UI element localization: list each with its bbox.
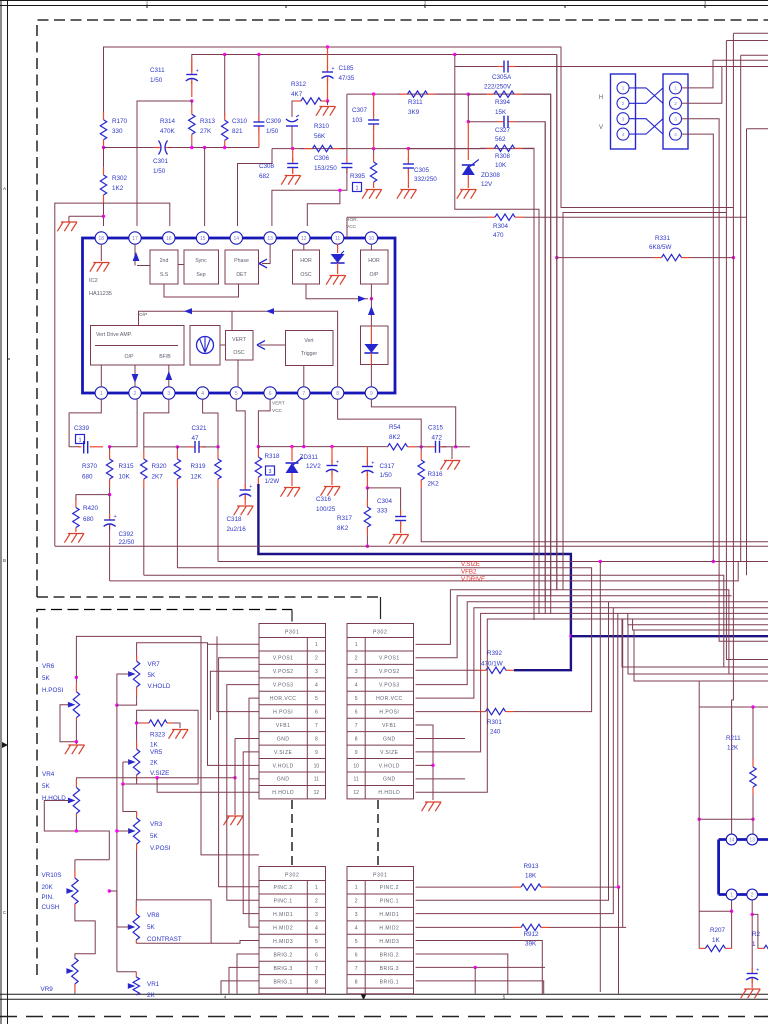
wire long line VFB2 bbox=[144, 575, 724, 667]
svg-text:R316: R316 bbox=[428, 471, 444, 478]
svg-text:P302: P302 bbox=[285, 873, 300, 879]
wire bundle L6 R304 bbox=[747, 128, 768, 130]
wire fan corner 667 exit bbox=[622, 619, 768, 667]
wire VR4 wiper loop bbox=[44, 801, 109, 860]
wire VR8 loop rect bbox=[136, 900, 211, 943]
svg-text:VR10S: VR10S bbox=[42, 872, 62, 879]
node pin2 cap bbox=[751, 913, 754, 916]
IC2-B pin 1 bbox=[726, 889, 737, 900]
svg-text:VR9: VR9 bbox=[41, 986, 54, 993]
wire R912 row bbox=[416, 926, 506, 928]
svg-text:1K2: 1K2 bbox=[112, 185, 124, 192]
svg-text:6: 6 bbox=[269, 391, 272, 397]
node row-C307 bbox=[372, 92, 375, 95]
block Sync Sep bbox=[184, 250, 219, 284]
svg-text:7: 7 bbox=[302, 391, 305, 397]
svg-text:5: 5 bbox=[355, 696, 358, 702]
block vert output circle bbox=[190, 326, 220, 366]
wire H.POSI branch to table row6 bbox=[217, 636, 259, 711]
wire wiper row right bbox=[109, 890, 117, 892]
node VR3 wiper bbox=[115, 829, 118, 832]
svg-text:2: 2 bbox=[315, 899, 318, 905]
wire IC2-B pin1 down bbox=[731, 901, 733, 949]
node VR4 row mid bbox=[155, 776, 158, 779]
resistor R913 bbox=[505, 884, 557, 890]
svg-text:BRIG.2: BRIG.2 bbox=[273, 952, 292, 958]
resistor R912 bbox=[505, 924, 557, 930]
wire pin8 to R316 bbox=[338, 399, 422, 447]
wire pin14 to jog bbox=[238, 149, 273, 226]
svg-text:11: 11 bbox=[353, 777, 358, 783]
wire node to C304 bbox=[367, 488, 400, 513]
wire T1 row5 left bbox=[249, 698, 259, 927]
node R913 bbox=[617, 885, 620, 888]
marker R395 box bbox=[353, 183, 362, 192]
svg-text:27K: 27K bbox=[200, 128, 212, 135]
ground VR6 bbox=[75, 742, 77, 744]
node C327 row left bbox=[467, 120, 470, 123]
wire fan corner 674 exit bbox=[628, 625, 768, 674]
svg-text:5: 5 bbox=[235, 391, 238, 397]
svg-text:12K: 12K bbox=[191, 474, 203, 481]
svg-text:V.SIZE: V.SIZE bbox=[150, 770, 169, 777]
wire connector crossover 1-2 bbox=[629, 88, 663, 103]
svg-text:2: 2 bbox=[355, 899, 358, 905]
svg-text:Sep: Sep bbox=[196, 272, 205, 278]
svg-text:V.POS2: V.POS2 bbox=[379, 669, 400, 675]
svg-text:PINC.2: PINC.2 bbox=[274, 885, 293, 891]
wire H.HOLD row to table bbox=[157, 778, 259, 793]
svg-text:680: 680 bbox=[82, 474, 93, 481]
svg-text:R2: R2 bbox=[752, 931, 761, 938]
wire 2nd S.S bottom to Phase DET bottom bbox=[164, 284, 239, 297]
wire connector crossover 3-4 bbox=[629, 119, 663, 134]
svg-text:Sync: Sync bbox=[195, 258, 207, 264]
svg-text:C315: C315 bbox=[428, 425, 444, 432]
connector table P301 bottom bbox=[347, 867, 414, 994]
svg-text:HOR.: HOR. bbox=[346, 217, 358, 223]
wire x618 down bbox=[618, 887, 620, 994]
wire pin4 jog bbox=[203, 399, 218, 447]
wire T2 GND rows right bbox=[416, 737, 466, 739]
op-amp IC2 HA11235 outline bbox=[83, 238, 396, 393]
svg-text:470/1W: 470/1W bbox=[481, 661, 503, 668]
svg-text:2: 2 bbox=[751, 892, 754, 898]
svg-text:472: 472 bbox=[432, 435, 443, 442]
IC2 top pins 18-10 bbox=[95, 232, 377, 244]
svg-text:H.MID3: H.MID3 bbox=[273, 939, 293, 945]
svg-text:5K: 5K bbox=[147, 924, 156, 931]
connector table P302 bottom bbox=[259, 867, 326, 994]
node W2-R313 bbox=[223, 53, 226, 56]
dashed connector link left pair vertical bbox=[291, 800, 293, 866]
node pin4-R319 bbox=[216, 445, 219, 448]
svg-text:8: 8 bbox=[315, 736, 318, 742]
resistor R392 bbox=[478, 667, 514, 673]
resistor R170 bbox=[100, 112, 106, 148]
resistor R311 bbox=[398, 91, 437, 97]
svg-text:C392: C392 bbox=[119, 531, 135, 538]
svg-text:CONTRAST: CONTRAST bbox=[147, 936, 182, 943]
node bus-R314 bbox=[190, 146, 193, 149]
svg-text:B: B bbox=[3, 558, 6, 563]
svg-text:ZD311: ZD311 bbox=[300, 454, 319, 461]
svg-text:680: 680 bbox=[83, 516, 94, 523]
dashed section border bottom-left bbox=[37, 610, 292, 976]
svg-text:C311: C311 bbox=[150, 67, 165, 74]
svg-text:13: 13 bbox=[749, 837, 755, 843]
svg-text:47/35: 47/35 bbox=[339, 75, 355, 82]
svg-text:1K: 1K bbox=[712, 937, 721, 944]
wire C305 column bbox=[407, 149, 409, 160]
pot VR6 H.POSI bbox=[73, 677, 79, 720]
svg-text:1: 1 bbox=[315, 885, 318, 891]
svg-text:5: 5 bbox=[355, 939, 358, 945]
svg-text:R912: R912 bbox=[524, 931, 540, 938]
svg-text:H.MID2: H.MID2 bbox=[273, 926, 293, 932]
node VR6 top bbox=[75, 676, 78, 679]
block output diode box bbox=[361, 326, 389, 365]
svg-text:R317: R317 bbox=[337, 515, 353, 522]
wire second top-right link L-shape bbox=[563, 213, 726, 590]
svg-text:R308: R308 bbox=[495, 153, 511, 160]
svg-text:562: 562 bbox=[495, 136, 506, 143]
wire pin17 to 2nd S.S bbox=[137, 265, 150, 267]
svg-text:+: + bbox=[249, 484, 252, 490]
node VR4 bottom bbox=[75, 829, 78, 832]
node pin18 ground wire bbox=[102, 215, 105, 218]
svg-text:V.POS3: V.POS3 bbox=[379, 683, 400, 689]
svg-text:3: 3 bbox=[269, 469, 272, 475]
wire R207 column from R211 row bbox=[698, 707, 700, 948]
wire node to C315 bbox=[421, 446, 430, 448]
wire node to R420 bbox=[76, 495, 110, 500]
svg-text:10K: 10K bbox=[495, 162, 507, 169]
node VR6 bottom bbox=[75, 740, 78, 743]
wire R211 top row bbox=[699, 706, 768, 708]
wire VR3 bottom to VR8 bbox=[136, 850, 138, 900]
capacitor C339 bbox=[78, 441, 103, 454]
wire fan corner 681 exit bbox=[634, 630, 768, 681]
node pin6-R318 bbox=[257, 445, 260, 448]
svg-text:10: 10 bbox=[353, 763, 359, 769]
svg-text:8K2: 8K2 bbox=[389, 434, 401, 441]
wire GND column x235 bbox=[235, 738, 259, 740]
wire stair r12 drop to R912 row bbox=[622, 619, 624, 927]
block HOR O/P bbox=[361, 250, 389, 284]
svg-text:R913: R913 bbox=[524, 863, 540, 870]
svg-text:R420: R420 bbox=[83, 505, 99, 512]
wire VR7 bottom join bbox=[117, 699, 137, 705]
wire C307 column bbox=[373, 94, 375, 116]
capacitor bottom right bbox=[746, 968, 759, 984]
svg-text:C309: C309 bbox=[266, 118, 282, 125]
wire R211 to IC pin13 bbox=[752, 815, 754, 834]
wire R913 row bbox=[416, 886, 506, 888]
dashed section divider to P302 bbox=[37, 596, 381, 598]
node R317 bus bbox=[366, 545, 369, 548]
wire long vertical x116.9 bbox=[116, 705, 118, 927]
svg-text:2u2/16: 2u2/16 bbox=[227, 526, 247, 533]
node R211 column top bbox=[751, 705, 754, 708]
svg-text:R211: R211 bbox=[726, 735, 741, 742]
svg-text:Vert Drive AMP.: Vert Drive AMP. bbox=[96, 332, 132, 338]
svg-text:Phase: Phase bbox=[234, 258, 249, 264]
svg-text:VR6: VR6 bbox=[42, 663, 55, 670]
svg-text:V.DRIVE: V.DRIVE bbox=[461, 576, 485, 583]
resistor R207 bbox=[699, 945, 731, 951]
node ZD311 bbox=[290, 445, 293, 448]
svg-text:4: 4 bbox=[201, 391, 204, 397]
connector left H/V bbox=[611, 74, 636, 149]
pot VR3 V.POSI bbox=[133, 812, 139, 851]
wire R211 top feed bbox=[698, 681, 700, 707]
svg-text:3K9: 3K9 bbox=[408, 109, 420, 116]
ground ZD311 bbox=[281, 488, 301, 497]
ruler arrow right bbox=[2, 742, 8, 748]
wire AMP to pin1 bbox=[100, 365, 102, 387]
svg-text:100/25: 100/25 bbox=[316, 506, 336, 513]
svg-text:Trigger: Trigger bbox=[301, 351, 318, 357]
wire W2 to C310 bbox=[258, 55, 260, 119]
ground C318 bbox=[234, 506, 254, 515]
svg-text:+: + bbox=[332, 66, 335, 72]
svg-text:R302: R302 bbox=[112, 175, 128, 182]
svg-text:R395: R395 bbox=[350, 173, 366, 180]
wire VR7 wiper loop bbox=[117, 674, 129, 705]
wire VR6 top loop bbox=[76, 636, 259, 855]
capacitor C392 bbox=[109, 495, 111, 514]
marker C339 box bbox=[76, 435, 85, 444]
svg-text:OSC: OSC bbox=[233, 350, 244, 356]
wire R302 to pin18 bbox=[103, 205, 105, 226]
wire R308 row bbox=[408, 148, 480, 150]
svg-text:7: 7 bbox=[355, 723, 358, 729]
svg-text:A: A bbox=[3, 186, 6, 191]
svg-text:PINC.1: PINC.1 bbox=[274, 899, 293, 905]
capacitor C316 bbox=[331, 447, 333, 463]
ground near pin18 outer bbox=[68, 216, 70, 221]
svg-text:H.HOLD: H.HOLD bbox=[272, 790, 294, 796]
svg-text:H.POSI: H.POSI bbox=[42, 687, 64, 694]
resistor R302 bbox=[100, 148, 106, 206]
svg-text:10: 10 bbox=[314, 763, 320, 769]
wire fan line 630 exit bbox=[633, 619, 768, 630]
wire bus to pin15 bbox=[204, 148, 206, 227]
node R170-R302 bbox=[102, 146, 105, 149]
svg-text:C185: C185 bbox=[339, 65, 355, 72]
svg-text:R323: R323 bbox=[150, 732, 166, 739]
node A-line junction x600 bbox=[599, 560, 602, 563]
wire C305A row right bbox=[515, 66, 722, 68]
wire VR3 wiper bbox=[117, 830, 129, 832]
node R370-C392 bbox=[108, 493, 111, 496]
wire T1 row11 to left vertical bbox=[249, 778, 259, 780]
resistor R211 bbox=[750, 707, 756, 815]
svg-text:5K: 5K bbox=[42, 675, 51, 682]
svg-text:470K: 470K bbox=[160, 128, 176, 135]
wire C315 node right to bundle bbox=[456, 446, 470, 448]
wire left bus bbox=[104, 147, 159, 149]
svg-text:1: 1 bbox=[674, 86, 677, 91]
svg-text:V.POSI: V.POSI bbox=[150, 845, 171, 852]
svg-text:240: 240 bbox=[490, 729, 501, 736]
svg-text:333: 333 bbox=[377, 508, 388, 515]
resistor R304 bbox=[476, 214, 525, 220]
svg-text:PIN.: PIN. bbox=[42, 894, 54, 901]
svg-text:14: 14 bbox=[234, 236, 240, 242]
capacitor C309 bbox=[286, 115, 299, 126]
svg-text:2: 2 bbox=[622, 101, 625, 106]
svg-text:V.SIZE: V.SIZE bbox=[461, 561, 480, 568]
svg-text:DET: DET bbox=[236, 272, 247, 278]
pot VR9 bbox=[72, 958, 78, 994]
svg-text:17: 17 bbox=[132, 236, 138, 242]
svg-text:O/P: O/P bbox=[125, 354, 134, 360]
capacitor C305 bbox=[403, 158, 414, 174]
svg-text:ZD308: ZD308 bbox=[481, 172, 500, 179]
wire 2nd S.S right to Sync Sep bbox=[178, 264, 184, 266]
svg-text:R310: R310 bbox=[314, 123, 330, 130]
wire bundle L1 to IC2B pin14 bbox=[733, 32, 768, 34]
zener at pin11 inside bbox=[337, 244, 339, 253]
svg-text:R313: R313 bbox=[200, 118, 216, 125]
capacitor C317 plates bbox=[361, 461, 374, 477]
svg-text:V: V bbox=[599, 125, 603, 131]
wire pin12 to C306 loop bbox=[307, 190, 340, 226]
svg-text:R331: R331 bbox=[655, 235, 671, 242]
diode in output box bbox=[364, 344, 378, 353]
wire R394 right corner down bbox=[529, 93, 551, 95]
svg-text:VR7: VR7 bbox=[148, 661, 161, 668]
wire VR5 wiper bbox=[122, 761, 124, 763]
wire pin16 loop down left side bbox=[55, 203, 170, 546]
svg-text:C339: C339 bbox=[74, 425, 90, 432]
wire Vert Trigger to VERT OSC bbox=[260, 344, 286, 346]
node C316 bbox=[330, 445, 333, 448]
wire VR5 loop rect bbox=[123, 710, 198, 784]
svg-text:V.HOLD: V.HOLD bbox=[148, 683, 171, 690]
dashed page bottom edge bbox=[0, 1016, 768, 1018]
svg-text:VFB2: VFB2 bbox=[461, 569, 477, 576]
svg-text:C306: C306 bbox=[314, 155, 330, 162]
svg-text:C308: C308 bbox=[259, 163, 275, 170]
wire ZD308 column bbox=[467, 122, 469, 160]
svg-text:4K7: 4K7 bbox=[291, 91, 303, 98]
wire T1 row2 long vertical bbox=[219, 658, 259, 887]
svg-text:VERT: VERT bbox=[232, 337, 247, 343]
svg-text:12V2: 12V2 bbox=[306, 463, 321, 470]
svg-text:PINC.1: PINC.1 bbox=[380, 899, 399, 905]
svg-text:HOR: HOR bbox=[368, 258, 380, 264]
wire C321 to pin4 node bbox=[202, 446, 218, 448]
svg-text:R319: R319 bbox=[191, 463, 207, 470]
capacitor C310 bbox=[253, 116, 264, 132]
svg-text:R320: R320 bbox=[152, 463, 168, 470]
node R211 row left bbox=[698, 818, 701, 821]
wire feedback O/P line bbox=[139, 311, 338, 387]
pot VR7 V.HOLD bbox=[133, 655, 139, 699]
wire C305A row bbox=[454, 55, 456, 67]
svg-text:1: 1 bbox=[355, 885, 358, 891]
wire R316 down to lower bus bbox=[421, 495, 768, 542]
svg-text:2: 2 bbox=[134, 391, 137, 397]
dashed connector link P302-P301 vertical bbox=[377, 800, 379, 866]
svg-text:C310: C310 bbox=[232, 118, 248, 125]
wire pin10 to HOR O/P bbox=[370, 244, 372, 250]
svg-text:VR8: VR8 bbox=[147, 912, 160, 919]
svg-text:9: 9 bbox=[370, 391, 373, 397]
wire C306 bottom loop to pin13 bbox=[272, 168, 347, 226]
wire C315 right bbox=[442, 446, 456, 448]
wire T1 row4 long vertical bbox=[227, 685, 259, 901]
svg-text:R311: R311 bbox=[408, 99, 423, 106]
svg-text:+: + bbox=[114, 514, 117, 520]
svg-text:4: 4 bbox=[622, 132, 625, 137]
svg-text:12K: 12K bbox=[727, 745, 739, 752]
wire T2 row4 staircase bbox=[416, 602, 768, 685]
resistor R394 bbox=[468, 91, 529, 97]
svg-text:4: 4 bbox=[315, 683, 318, 689]
wire T1 row9 long vertical bbox=[243, 752, 259, 914]
svg-text:H.MID1: H.MID1 bbox=[273, 912, 293, 918]
svg-text:V.POS1: V.POS1 bbox=[379, 656, 400, 662]
svg-text:BRIG.2: BRIG.2 bbox=[380, 952, 399, 958]
wire bundle L2 bbox=[726, 40, 768, 42]
svg-text:H.MID2: H.MID2 bbox=[379, 926, 399, 932]
wire main lower bus bbox=[55, 545, 768, 547]
svg-text:22/50: 22/50 bbox=[119, 539, 135, 546]
svg-text:12: 12 bbox=[314, 790, 320, 796]
svg-text:BRIG.3: BRIG.3 bbox=[273, 966, 292, 972]
capacitor C305A bbox=[497, 61, 515, 73]
capacitor C308 bbox=[287, 158, 298, 174]
svg-text:V.POS1: V.POS1 bbox=[273, 656, 294, 662]
wire long vertical x116.9 lower bbox=[116, 891, 118, 972]
svg-text:5K: 5K bbox=[150, 833, 159, 840]
svg-text:3: 3 bbox=[674, 117, 677, 122]
svg-text:1/2W: 1/2W bbox=[265, 478, 280, 485]
svg-text:1/50: 1/50 bbox=[153, 168, 166, 175]
wire VR6 wiper loop bbox=[60, 705, 76, 742]
resistor R395 bbox=[370, 149, 376, 188]
svg-text:3: 3 bbox=[315, 669, 318, 675]
wire C308 top lead bbox=[292, 149, 294, 161]
svg-text:10K: 10K bbox=[119, 474, 131, 481]
wire T4 row6 down bbox=[416, 954, 508, 994]
capacitor C315 bbox=[429, 441, 447, 453]
wire conn pin3 out bbox=[682, 119, 768, 642]
svg-text:3: 3 bbox=[167, 391, 170, 397]
capacitor C392 plates bbox=[104, 514, 117, 530]
svg-text:153/250: 153/250 bbox=[314, 165, 337, 172]
capacitor C317 bbox=[366, 447, 368, 464]
svg-text:12: 12 bbox=[353, 790, 359, 796]
svg-text:7: 7 bbox=[355, 966, 358, 972]
svg-text:BF/B: BF/B bbox=[159, 354, 171, 360]
svg-text:P301: P301 bbox=[373, 873, 388, 879]
svg-text:7: 7 bbox=[315, 966, 318, 972]
wire W2 to R313 bbox=[224, 55, 226, 116]
svg-text:OSC: OSC bbox=[300, 272, 311, 278]
block VERT OSC bbox=[226, 331, 254, 361]
wire R311 row bbox=[347, 94, 551, 614]
svg-text:20K: 20K bbox=[42, 884, 54, 891]
svg-text:V.POS2: V.POS2 bbox=[273, 669, 294, 675]
svg-text:VCC: VCC bbox=[346, 224, 357, 230]
pot VR4 H.HOLD bbox=[73, 778, 79, 816]
svg-text:HOR.VCC: HOR.VCC bbox=[376, 696, 403, 702]
